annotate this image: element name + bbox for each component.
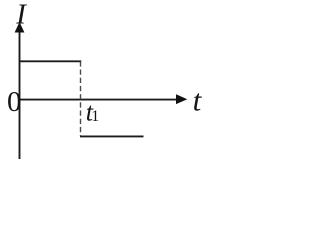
axis I arrowhead <box>15 22 25 33</box>
axis t arrowhead <box>176 94 187 104</box>
axis I (vertical axis shaft) <box>19 30 21 159</box>
graph: current I vs time t square-wave step <box>0 0 208 165</box>
axis t (horizontal axis shaft) <box>19 99 179 101</box>
svg-text:I: I <box>15 0 27 31</box>
upper current step segment <box>19 60 81 62</box>
lower current step segment <box>80 135 144 137</box>
svg-text:0: 0 <box>7 86 22 118</box>
dashed transition line at t1 <box>80 61 82 136</box>
svg-text:t: t <box>193 82 203 117</box>
